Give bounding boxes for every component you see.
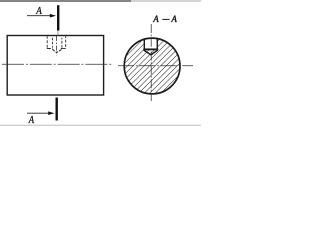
slot wall left <box>143 39 145 50</box>
svg-text:A: A <box>170 15 177 25</box>
cutting plane thick line top <box>57 5 59 30</box>
hole hidden outer wall right <box>65 36 67 48</box>
hole centerline front view <box>56 36 58 55</box>
hole hidden inner wall right <box>61 38 63 48</box>
hole hidden drill cone <box>52 49 62 52</box>
circle outline <box>124 38 180 94</box>
svg-text:A: A <box>35 5 42 17</box>
shaft centerline <box>2 63 113 65</box>
section vertical centerline <box>150 24 152 101</box>
section horizontal centerline <box>118 65 193 67</box>
bottom border line <box>0 124 201 126</box>
svg-text:A: A <box>152 15 159 25</box>
section circle hatched <box>124 38 180 94</box>
svg-text:A: A <box>28 114 34 126</box>
hole hidden outer wall left <box>46 36 48 48</box>
cutting plane thick line bottom <box>56 98 58 121</box>
slot bottom line <box>143 48 158 50</box>
top border line <box>0 0 131 2</box>
slot wall right <box>156 39 158 50</box>
hole hidden inner wall left <box>51 38 53 48</box>
hole slot white <box>145 38 157 50</box>
section arrow bottom <box>27 112 49 114</box>
shaft body front view <box>7 36 103 96</box>
hole hidden bottom line <box>47 48 53 50</box>
drill cone section <box>144 50 158 55</box>
section arrow top <box>27 15 51 17</box>
